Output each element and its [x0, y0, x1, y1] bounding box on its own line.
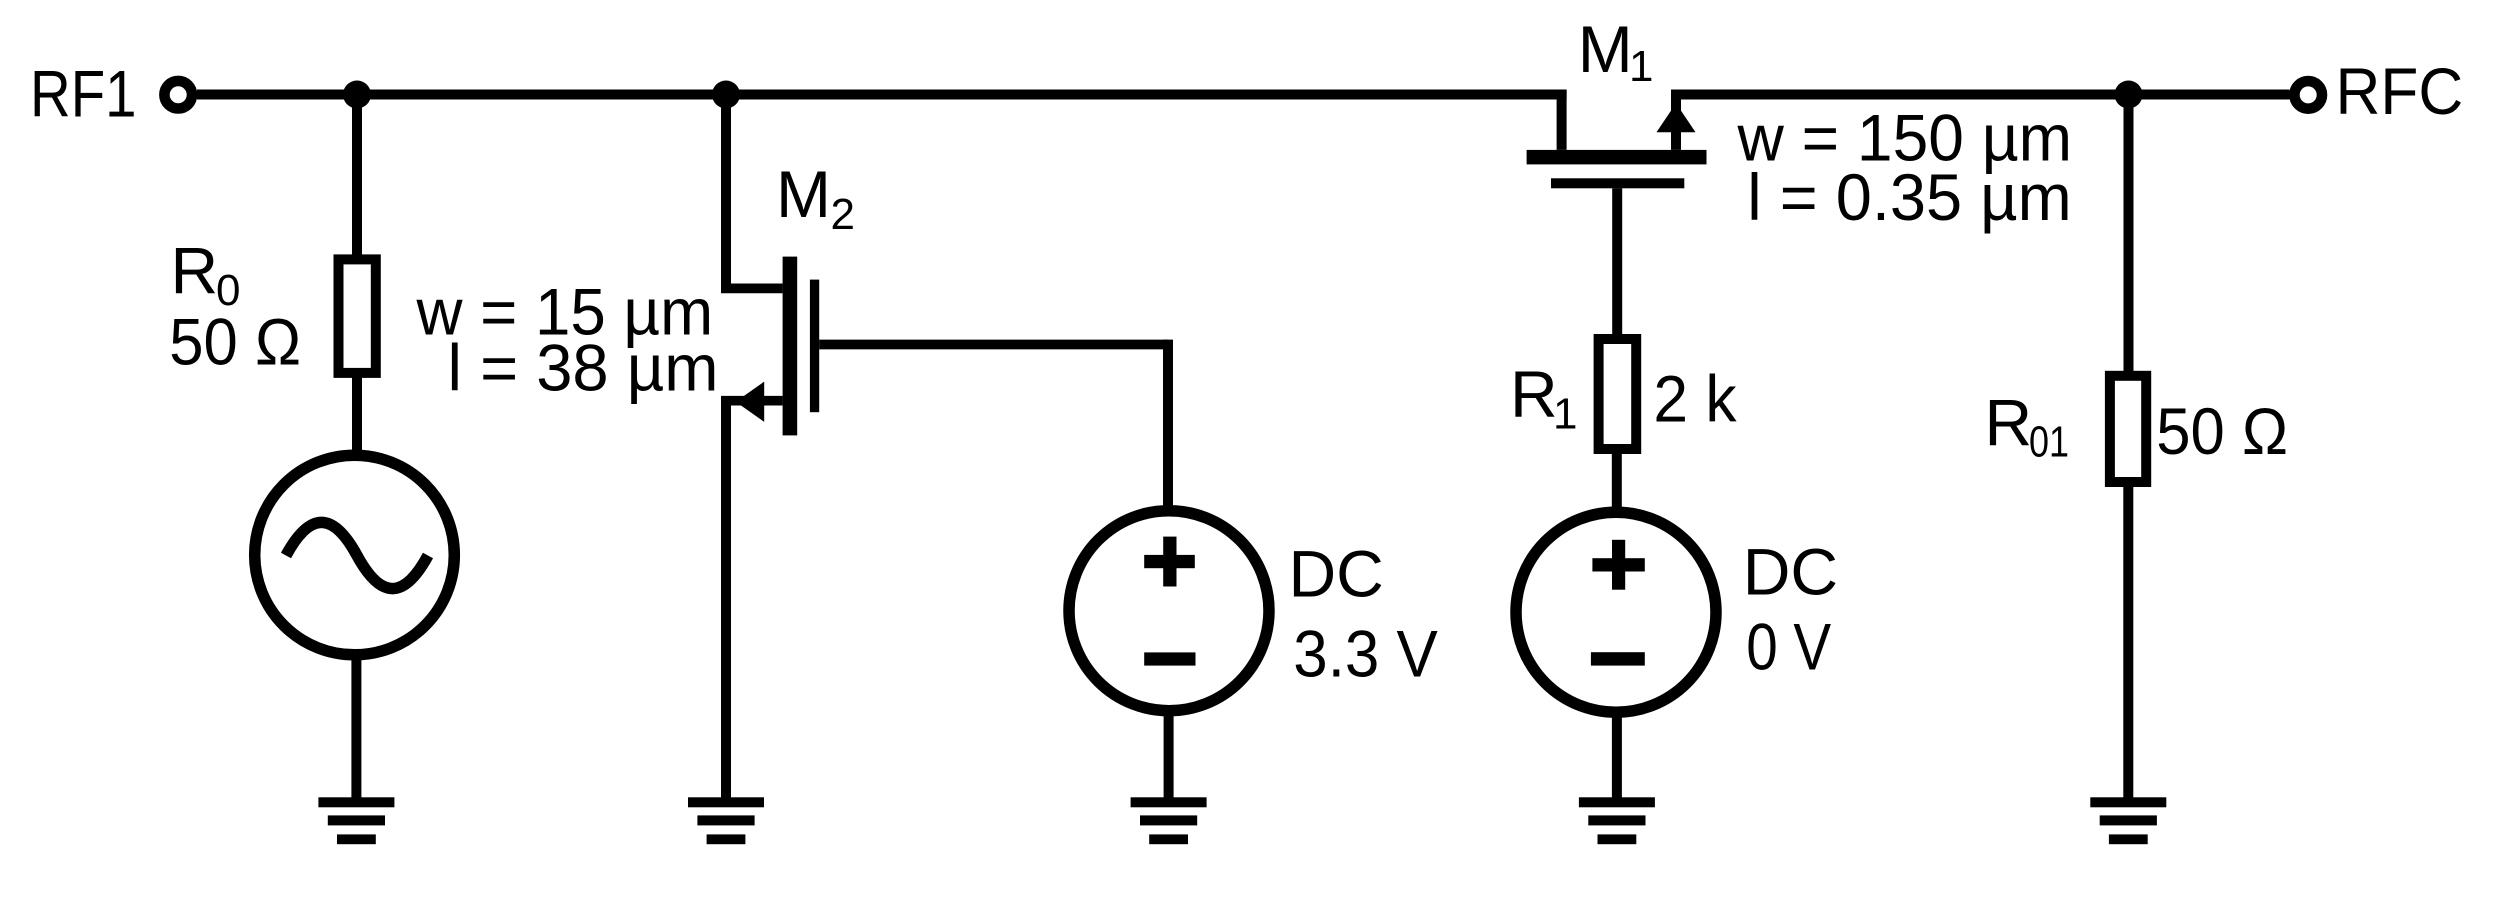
DC source V2 plus sign [1144, 537, 1195, 587]
DC source V3 minus sign [1591, 652, 1645, 665]
wire main left (RF1 to M1 drain corner) [197, 90, 1567, 100]
wire M2 gate down to DC source [1163, 340, 1173, 512]
DC source V2 minus sign [1144, 652, 1195, 665]
svg-text:R: R [171, 233, 219, 307]
svg-text:RF1: RF1 [30, 57, 137, 131]
wire node A down to R0 [352, 95, 362, 261]
transistor M1 bulk arrow [1657, 103, 1696, 132]
ground (AC source) [318, 797, 394, 844]
wire node B down to M2 drain [721, 95, 731, 289]
svg-text:1: 1 [1553, 389, 1577, 438]
svg-text:50 Ω: 50 Ω [2156, 394, 2288, 468]
node C junction dot [2115, 81, 2143, 109]
ground (V3) [1579, 797, 1655, 844]
wire node C down to R01 [2124, 95, 2134, 377]
transistor M1 gate bar [1551, 178, 1684, 188]
transistor M2 drain stub [721, 284, 783, 294]
svg-text:R: R [1985, 386, 2033, 460]
svg-text:0 V: 0 V [1746, 610, 1831, 684]
resistor R0 [339, 259, 376, 373]
svg-text:R: R [1510, 357, 1558, 431]
AC source sine wave [286, 522, 428, 588]
svg-text:l = 0.35 µm: l = 0.35 µm [1747, 160, 2071, 234]
wire R01 to ground [2123, 482, 2133, 800]
DC source V2 circle [1069, 511, 1269, 711]
ground (V2) [1131, 797, 1207, 844]
svg-text:RFC: RFC [2336, 54, 2464, 128]
AC source V1 circle [255, 455, 455, 655]
transistor M2 source stub [721, 396, 783, 406]
ground (M2 source) [688, 797, 764, 844]
wire DC source V3 to ground [1612, 710, 1622, 800]
svg-text:2: 2 [831, 190, 855, 239]
wire M1 gate down to R1 [1612, 188, 1622, 340]
wire main right (M1 source to RFC) [1671, 90, 2290, 100]
svg-text:l = 38 µm: l = 38 µm [448, 331, 719, 405]
transistor M1 source stem [1671, 95, 1681, 150]
resistor R1 [1599, 339, 1637, 449]
node A junction dot [343, 81, 371, 109]
svg-text:DC: DC [1743, 535, 1838, 609]
wire AC source to ground [351, 650, 361, 800]
DC source V3 plus sign [1592, 540, 1644, 590]
svg-text:3.3 V: 3.3 V [1293, 616, 1437, 690]
terminal RF1 [164, 81, 192, 109]
svg-text:2 k: 2 k [1653, 362, 1737, 436]
DC source V3 circle [1516, 512, 1716, 712]
resistor R01 [2110, 376, 2146, 482]
transistor M1 channel bar [1527, 150, 1707, 165]
svg-text:01: 01 [2029, 418, 2069, 467]
wire R0 to AC source [352, 372, 362, 460]
svg-text:M: M [1578, 12, 1633, 86]
terminal RFC [2294, 81, 2322, 109]
svg-text:DC: DC [1289, 537, 1384, 611]
svg-text:M: M [776, 157, 831, 231]
wire M2 source to ground [721, 401, 731, 800]
transistor M2 channel bar [783, 257, 798, 436]
transistor M1 drain stub [1557, 90, 1567, 150]
ground (R01) [2090, 797, 2166, 844]
transistor M2 gate bar [810, 280, 819, 413]
svg-text:1: 1 [1629, 42, 1653, 91]
svg-text:50 Ω: 50 Ω [169, 304, 301, 378]
wire R1 to DC source V3 [1612, 449, 1622, 515]
wire DC source V2 to ground [1164, 710, 1174, 800]
wire M2 gate horizontal [819, 340, 1168, 350]
node B junction dot [712, 81, 740, 109]
transistor M2 bulk arrow [736, 382, 765, 422]
